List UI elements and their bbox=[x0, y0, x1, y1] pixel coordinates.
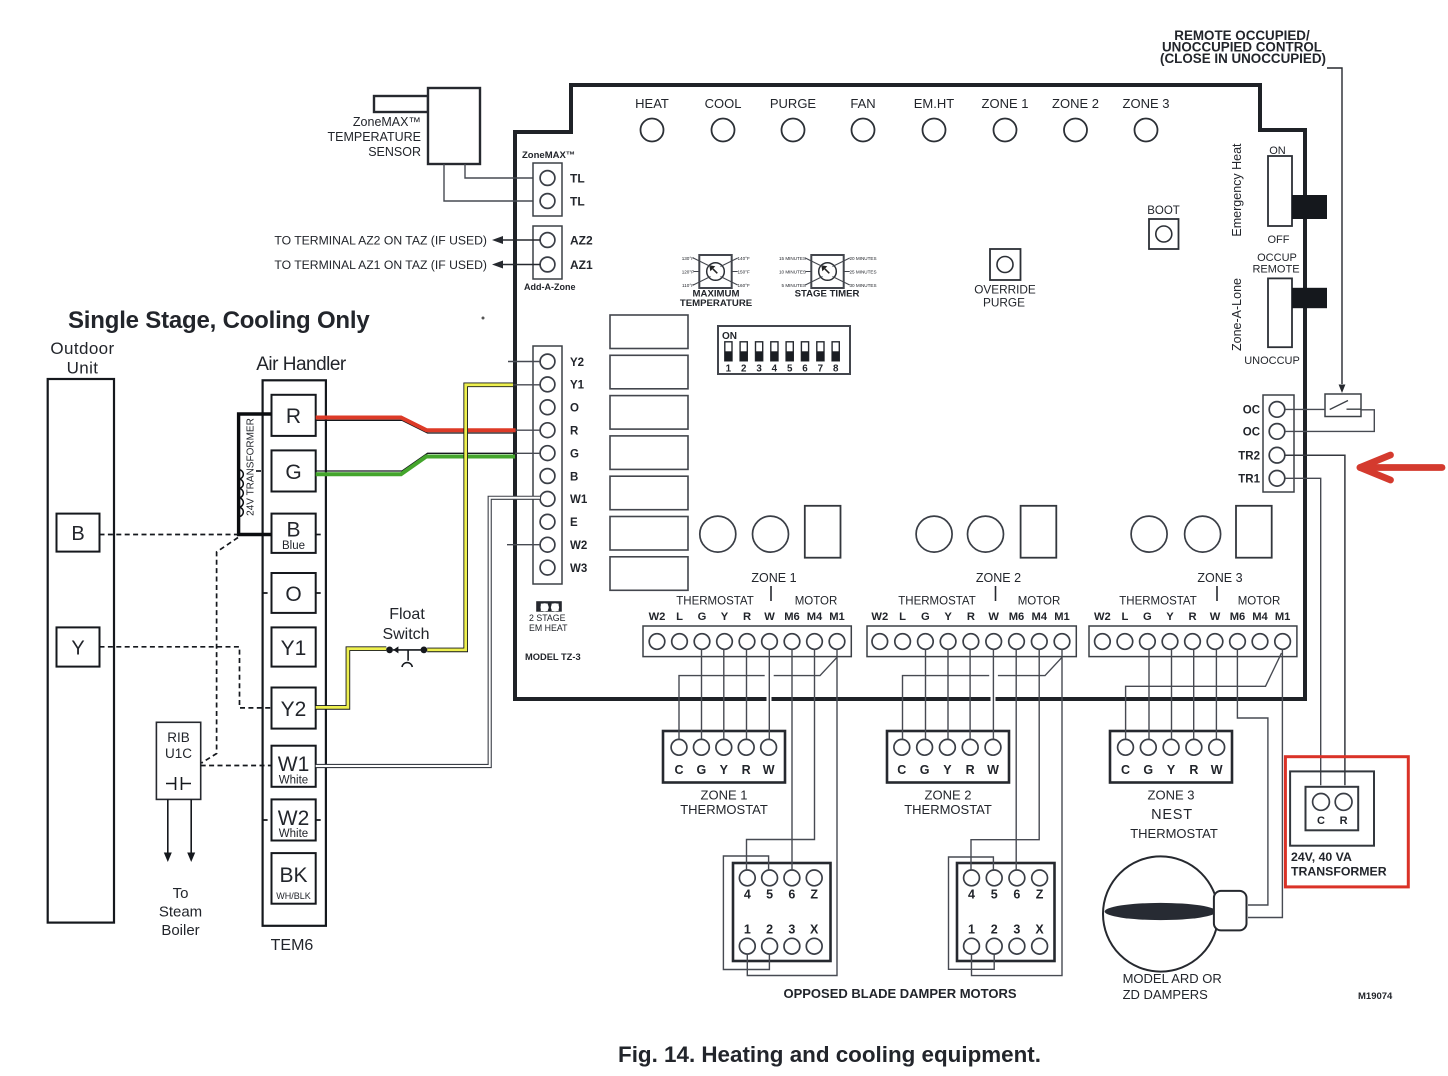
svg-text:2: 2 bbox=[766, 923, 773, 937]
svg-text:M4: M4 bbox=[1032, 611, 1048, 623]
svg-text:Outdoor: Outdoor bbox=[50, 339, 114, 358]
svg-text:MODEL TZ-3: MODEL TZ-3 bbox=[525, 652, 581, 662]
svg-text:Y: Y bbox=[943, 763, 952, 777]
svg-text:W: W bbox=[1210, 611, 1221, 623]
svg-text:5 MINUTES: 5 MINUTES bbox=[781, 283, 806, 288]
svg-text:STAGE TIMER: STAGE TIMER bbox=[795, 289, 860, 300]
svg-text:10 MINUTES: 10 MINUTES bbox=[779, 270, 806, 275]
svg-text:E: E bbox=[570, 517, 578, 529]
svg-text:7: 7 bbox=[818, 364, 824, 375]
svg-text:UNOCCUP: UNOCCUP bbox=[1244, 355, 1300, 367]
svg-text:White: White bbox=[279, 828, 308, 840]
svg-text:ZONE 1: ZONE 1 bbox=[701, 788, 748, 803]
svg-text:PURGE: PURGE bbox=[983, 296, 1025, 310]
svg-text:3: 3 bbox=[1013, 923, 1020, 937]
svg-text:G: G bbox=[1143, 763, 1153, 777]
svg-text:R: R bbox=[1340, 815, 1348, 827]
svg-text:G: G bbox=[921, 611, 930, 623]
svg-text:C: C bbox=[897, 763, 906, 777]
svg-text:OC: OC bbox=[1243, 427, 1260, 439]
svg-text:5: 5 bbox=[787, 364, 793, 375]
svg-text:R: R bbox=[743, 611, 751, 623]
svg-text:4: 4 bbox=[968, 888, 975, 902]
svg-text:TEMPERATURE: TEMPERATURE bbox=[680, 298, 753, 309]
svg-text:ZD DAMPERS: ZD DAMPERS bbox=[1123, 987, 1209, 1002]
svg-text:Y2: Y2 bbox=[570, 357, 584, 369]
svg-text:Y: Y bbox=[720, 763, 729, 777]
svg-text:W: W bbox=[988, 611, 999, 623]
svg-text:130°F: 130°F bbox=[682, 256, 695, 261]
svg-text:2: 2 bbox=[991, 923, 998, 937]
svg-text:ZoneMAX™: ZoneMAX™ bbox=[353, 115, 421, 129]
svg-text:M19074: M19074 bbox=[1358, 991, 1393, 1002]
svg-text:G: G bbox=[920, 763, 930, 777]
svg-text:OCCUP: OCCUP bbox=[1257, 252, 1297, 264]
svg-text:ZONE 2: ZONE 2 bbox=[1052, 96, 1099, 111]
svg-text:5: 5 bbox=[991, 888, 998, 902]
svg-text:ZONE 3: ZONE 3 bbox=[1197, 571, 1242, 585]
svg-text:2: 2 bbox=[741, 364, 747, 375]
svg-text:TO TERMINAL AZ2 ON TAZ (IF USE: TO TERMINAL AZ2 ON TAZ (IF USED) bbox=[274, 234, 487, 248]
svg-text:Switch: Switch bbox=[382, 626, 429, 643]
svg-text:Y: Y bbox=[71, 638, 84, 660]
svg-text:110°F: 110°F bbox=[682, 283, 694, 288]
svg-text:W2: W2 bbox=[278, 807, 310, 830]
svg-text:1: 1 bbox=[968, 923, 975, 937]
svg-text:FAN: FAN bbox=[850, 96, 875, 111]
svg-text:24V, 40 VA: 24V, 40 VA bbox=[1291, 850, 1352, 864]
svg-text:4: 4 bbox=[772, 364, 778, 375]
svg-text:3: 3 bbox=[788, 923, 795, 937]
svg-text:M6: M6 bbox=[784, 611, 800, 623]
svg-text:30 MINUTES: 30 MINUTES bbox=[850, 283, 877, 288]
svg-text:(CLOSE IN UNOCCUPIED): (CLOSE IN UNOCCUPIED) bbox=[1160, 51, 1326, 66]
svg-text:M1: M1 bbox=[1275, 611, 1291, 623]
svg-text:R: R bbox=[967, 611, 975, 623]
svg-text:W3: W3 bbox=[570, 563, 587, 575]
svg-text:Y: Y bbox=[944, 611, 952, 623]
svg-text:C: C bbox=[1317, 815, 1325, 827]
svg-text:TEMPERATURE: TEMPERATURE bbox=[327, 130, 421, 144]
svg-text:TL: TL bbox=[570, 172, 585, 186]
svg-text:WH/BLK: WH/BLK bbox=[276, 891, 311, 901]
svg-text:M1: M1 bbox=[1054, 611, 1070, 623]
svg-text:O: O bbox=[285, 583, 301, 606]
svg-text:R: R bbox=[570, 426, 579, 438]
svg-text:TEM6: TEM6 bbox=[271, 937, 314, 954]
svg-text:EM.HT: EM.HT bbox=[914, 96, 955, 111]
svg-text:L: L bbox=[1121, 611, 1128, 623]
svg-text:C: C bbox=[1121, 763, 1130, 777]
svg-text:140°F: 140°F bbox=[738, 256, 751, 261]
svg-text:MOTOR: MOTOR bbox=[795, 596, 838, 608]
svg-text:L: L bbox=[899, 611, 906, 623]
svg-text:Single Stage, Cooling Only: Single Stage, Cooling Only bbox=[68, 307, 370, 334]
svg-text:W: W bbox=[1211, 763, 1223, 777]
svg-text:Add-A-Zone: Add-A-Zone bbox=[524, 282, 576, 292]
svg-text:X: X bbox=[810, 923, 819, 937]
svg-text:ON: ON bbox=[722, 331, 737, 342]
svg-text:O: O bbox=[570, 403, 579, 415]
svg-text:PURGE: PURGE bbox=[770, 96, 817, 111]
svg-text:Z: Z bbox=[810, 888, 818, 902]
svg-text:Z: Z bbox=[1036, 888, 1044, 902]
svg-text:B: B bbox=[570, 471, 578, 483]
svg-text:W1: W1 bbox=[278, 753, 310, 776]
svg-text:Unit: Unit bbox=[67, 359, 99, 378]
svg-text:6: 6 bbox=[788, 888, 795, 902]
svg-text:R: R bbox=[1188, 611, 1196, 623]
svg-text:U1C: U1C bbox=[165, 746, 192, 761]
svg-text:Float: Float bbox=[389, 606, 425, 623]
svg-text:B: B bbox=[71, 523, 84, 545]
svg-text:Y1: Y1 bbox=[570, 380, 585, 392]
svg-text:ZONE 1: ZONE 1 bbox=[982, 96, 1029, 111]
svg-text:THERMOSTAT: THERMOSTAT bbox=[898, 596, 976, 608]
svg-text:G: G bbox=[570, 448, 579, 460]
svg-text:1: 1 bbox=[726, 364, 732, 375]
svg-text:AZ1: AZ1 bbox=[570, 258, 593, 272]
svg-text:THERMOSTAT: THERMOSTAT bbox=[1130, 826, 1218, 841]
svg-text:G: G bbox=[285, 461, 301, 484]
svg-text:OFF: OFF bbox=[1268, 234, 1290, 246]
svg-text:R: R bbox=[286, 405, 301, 428]
svg-text:G: G bbox=[697, 763, 707, 777]
svg-text:M6: M6 bbox=[1230, 611, 1246, 623]
svg-text:Y: Y bbox=[1166, 611, 1174, 623]
svg-text:W: W bbox=[763, 763, 775, 777]
svg-text:EM HEAT: EM HEAT bbox=[529, 623, 568, 633]
svg-text:ZONE 3: ZONE 3 bbox=[1148, 788, 1195, 803]
svg-text:W2: W2 bbox=[649, 611, 666, 623]
svg-text:RIB: RIB bbox=[167, 730, 190, 745]
svg-text:ZONE 1: ZONE 1 bbox=[751, 571, 796, 585]
svg-text:OVERRIDE: OVERRIDE bbox=[974, 283, 1036, 297]
svg-text:20 MINUTES: 20 MINUTES bbox=[850, 256, 877, 261]
svg-text:NEST: NEST bbox=[1151, 807, 1193, 823]
svg-text:ON: ON bbox=[1269, 145, 1286, 157]
svg-text:Air Handler: Air Handler bbox=[256, 354, 347, 375]
svg-text:2 STAGE: 2 STAGE bbox=[529, 613, 566, 623]
svg-text:W1: W1 bbox=[570, 494, 588, 506]
svg-text:Blue: Blue bbox=[282, 540, 305, 552]
svg-text:Y: Y bbox=[721, 611, 729, 623]
svg-text:MOTOR: MOTOR bbox=[1018, 596, 1061, 608]
svg-text:8: 8 bbox=[833, 364, 839, 375]
svg-text:REMOTE: REMOTE bbox=[1252, 264, 1299, 276]
svg-text:W2: W2 bbox=[871, 611, 888, 623]
svg-text:ZONE 2: ZONE 2 bbox=[976, 571, 1021, 585]
svg-text:M4: M4 bbox=[807, 611, 823, 623]
svg-text:1: 1 bbox=[744, 923, 751, 937]
svg-text:160°F: 160°F bbox=[738, 283, 751, 288]
svg-text:W: W bbox=[764, 611, 775, 623]
svg-text:6: 6 bbox=[1013, 888, 1020, 902]
svg-text:THERMOSTAT: THERMOSTAT bbox=[1119, 596, 1197, 608]
svg-text:15 MINUTES: 15 MINUTES bbox=[779, 256, 806, 261]
svg-text:24V TRANSFORMER: 24V TRANSFORMER bbox=[246, 418, 257, 516]
svg-text:SENSOR: SENSOR bbox=[368, 145, 421, 159]
svg-text:R: R bbox=[966, 763, 975, 777]
svg-text:120°F: 120°F bbox=[682, 270, 695, 275]
svg-text:ZONE 3: ZONE 3 bbox=[1123, 96, 1170, 111]
svg-text:Boiler: Boiler bbox=[161, 922, 199, 939]
svg-text:MODEL ARD OR: MODEL ARD OR bbox=[1123, 971, 1222, 986]
svg-text:COOL: COOL bbox=[705, 96, 742, 111]
svg-text:W: W bbox=[987, 763, 999, 777]
svg-text:Steam: Steam bbox=[159, 904, 202, 921]
svg-text:M4: M4 bbox=[1252, 611, 1268, 623]
svg-text:5: 5 bbox=[766, 888, 773, 902]
svg-text:Y2: Y2 bbox=[281, 698, 307, 721]
svg-text:Emergency Heat: Emergency Heat bbox=[1230, 143, 1244, 237]
svg-text:BK: BK bbox=[279, 864, 307, 887]
svg-text:MOTOR: MOTOR bbox=[1238, 596, 1281, 608]
svg-text:150°F: 150°F bbox=[738, 270, 751, 275]
svg-text:Fig. 14. Heating and cooling e: Fig. 14. Heating and cooling equipment. bbox=[618, 1042, 1041, 1067]
svg-text:G: G bbox=[1143, 611, 1152, 623]
svg-text:C: C bbox=[674, 763, 683, 777]
svg-text:4: 4 bbox=[744, 888, 751, 902]
svg-text:M6: M6 bbox=[1009, 611, 1025, 623]
svg-text:To: To bbox=[173, 885, 189, 902]
svg-text:TO TERMINAL AZ1 ON TAZ (IF USE: TO TERMINAL AZ1 ON TAZ (IF USED) bbox=[274, 258, 487, 272]
svg-text:BOOT: BOOT bbox=[1147, 205, 1180, 217]
svg-text:HEAT: HEAT bbox=[635, 96, 669, 111]
svg-text:ZoneMAX™: ZoneMAX™ bbox=[522, 150, 575, 161]
svg-text:W2: W2 bbox=[1094, 611, 1111, 623]
svg-text:Y1: Y1 bbox=[281, 637, 307, 660]
svg-text:OPPOSED BLADE DAMPER MOTORS: OPPOSED BLADE DAMPER MOTORS bbox=[783, 986, 1016, 1001]
svg-text:AZ2: AZ2 bbox=[570, 234, 593, 248]
svg-text:3: 3 bbox=[756, 364, 762, 375]
svg-text:White: White bbox=[279, 775, 308, 787]
svg-text:TR2: TR2 bbox=[1238, 451, 1260, 463]
svg-text:25 MINUTES: 25 MINUTES bbox=[850, 270, 877, 275]
svg-text:THERMOSTAT: THERMOSTAT bbox=[904, 802, 992, 817]
svg-text:OC: OC bbox=[1243, 405, 1260, 417]
svg-text:X: X bbox=[1035, 923, 1044, 937]
svg-text:ZONE 2: ZONE 2 bbox=[925, 788, 972, 803]
svg-text:6: 6 bbox=[802, 364, 808, 375]
svg-text:TL: TL bbox=[570, 195, 585, 209]
svg-text:B: B bbox=[286, 519, 300, 542]
svg-text:Y: Y bbox=[1167, 763, 1176, 777]
svg-text:THERMOSTAT: THERMOSTAT bbox=[680, 802, 768, 817]
svg-text:R: R bbox=[742, 763, 751, 777]
svg-text:G: G bbox=[698, 611, 707, 623]
svg-text:TR1: TR1 bbox=[1238, 474, 1260, 486]
svg-text:W2: W2 bbox=[570, 540, 587, 552]
svg-text:THERMOSTAT: THERMOSTAT bbox=[676, 596, 754, 608]
svg-text:TRANSFORMER: TRANSFORMER bbox=[1291, 865, 1387, 879]
svg-text:M1: M1 bbox=[829, 611, 845, 623]
svg-text:R: R bbox=[1189, 763, 1198, 777]
svg-text:Zone-A-Lone: Zone-A-Lone bbox=[1230, 278, 1244, 351]
svg-text:L: L bbox=[676, 611, 683, 623]
